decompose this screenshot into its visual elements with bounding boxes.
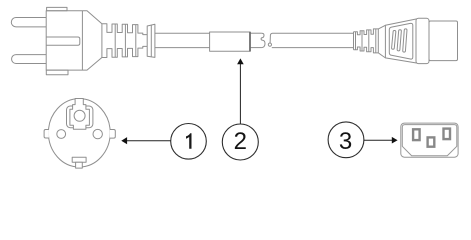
connector C13 face inner outline: [402, 125, 457, 156]
cable segment A bottom: [155, 47, 210, 49]
connector C13 grip slot 2: [397, 30, 401, 51]
connector C13 collar: [416, 18, 429, 63]
connector C13 strain relief top profile: [354, 29, 379, 35]
plug P1 bottom pin (side view): [12, 55, 47, 64]
svg-text:3: 3: [339, 128, 352, 155]
connector C13 strain relief bottom profile: [354, 47, 379, 53]
callout circle 3: [328, 122, 364, 158]
plug face bottom key narrow: [76, 162, 83, 168]
connector C13 strain relief right edge: [377, 29, 379, 53]
plug P1 strain relief bottom profile: [102, 46, 147, 57]
leader line 3: [364, 139, 392, 141]
plug face right notch: [110, 130, 116, 139]
plug P1 bottom tab: [46, 70, 68, 75]
plug face earth pin hole: [74, 110, 85, 121]
cable segment C bottom: [272, 47, 354, 49]
plug P1 strain relief top profile: [102, 24, 147, 35]
label 1: [186, 133, 192, 149]
connector C13 strain relief left edge: [353, 32, 355, 50]
connector C13 face pin N: [444, 129, 451, 140]
plug P1 top tab: [47, 7, 67, 10]
connector C13 grip slot 3: [403, 29, 407, 52]
cable segment C top: [273, 32, 354, 34]
connector C13 strain relief rib inner lines: [356, 29, 376, 53]
connector C13 flare: [378, 25, 385, 58]
cable sleeve right edge (thick): [249, 32, 251, 52]
plug P1 side slot: [46, 37, 80, 45]
cable break mark right: [270, 33, 272, 43]
plug face outline (item 1): [48, 99, 110, 167]
connector C13 face outline (item 3): [401, 123, 458, 157]
plug face left notch: [44, 130, 49, 139]
plug P1 strain relief left edge: [101, 24, 103, 58]
connector C13 face pin E: [428, 137, 435, 146]
plug face left pin: [57, 130, 66, 139]
arrowhead 2: [237, 58, 244, 64]
svg-text:2: 2: [234, 128, 247, 155]
cable segment B bottom: [250, 47, 261, 49]
leader line 2: [239, 64, 241, 124]
plug P1 top pin (side view): [11, 18, 46, 27]
plug face right pin: [93, 129, 102, 138]
callout circle 2: [222, 124, 258, 160]
plug face earth contact cross: [70, 99, 90, 130]
arrowhead 1: [121, 137, 127, 144]
cable break mark right loop: [268, 43, 271, 46]
connector C13 head: [429, 21, 458, 61]
connector C13 grip slot 1: [391, 30, 395, 49]
plug P1 body seam: [81, 11, 83, 70]
plug face bottom key wide: [72, 157, 86, 162]
cable label sleeve (item 2): [210, 32, 250, 51]
connector C13 grip panel: [389, 23, 413, 59]
cable break mark left: [261, 33, 265, 47]
arrowhead 3: [392, 137, 398, 144]
leader line 1: [127, 140, 171, 142]
plug P1 cable flange: [147, 24, 155, 57]
plug face earth housing: [67, 106, 93, 128]
cable segment A top: [155, 32, 210, 34]
connector C13 grip body: [385, 19, 418, 64]
connector C13 face pin L: [413, 129, 420, 140]
plug P1 strain relief rib inner lines: [115, 24, 136, 57]
callout circle 1: [171, 124, 207, 160]
plug P1 body outline with taper: [46, 11, 102, 70]
cable segment B top: [250, 32, 261, 34]
